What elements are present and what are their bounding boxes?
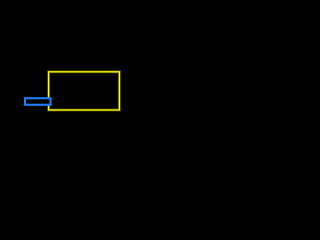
pad P1 (blue pin) xyxy=(25,98,51,104)
component body U1 (yellow outline) xyxy=(49,72,120,110)
